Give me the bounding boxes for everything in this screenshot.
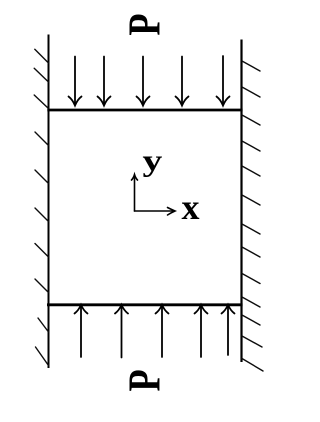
bottom load arrow 2 [115, 305, 128, 358]
right rigid wall line [240, 40, 242, 363]
left wall hatching [34, 49, 48, 365]
top load arrow 5 [217, 56, 230, 106]
right wall hatching [242, 61, 263, 371]
top load arrow 2 [98, 57, 111, 106]
bottom load arrow 5 [222, 305, 235, 355]
svg-text:x: x [182, 187, 200, 227]
svg-text:P: P [118, 13, 169, 35]
svg-text:P: P [118, 369, 169, 391]
top load arrow 1 [69, 57, 82, 106]
plate bottom edge [47, 303, 243, 306]
plate top edge [47, 109, 242, 112]
left rigid wall line [48, 35, 50, 369]
top load arrow 4 [176, 57, 189, 106]
load label P top (rotated) [118, 13, 169, 35]
bottom load arrow 4 [195, 305, 208, 357]
top load arrow 3 [137, 57, 150, 106]
y axis [132, 175, 138, 212]
svg-text:y: y [143, 143, 163, 178]
bottom load arrow 1 [75, 305, 88, 357]
bottom load arrow 3 [156, 305, 169, 357]
x axis [135, 208, 176, 216]
label y [143, 143, 163, 178]
label x [182, 187, 200, 227]
load label P bottom (rotated) [118, 369, 169, 391]
